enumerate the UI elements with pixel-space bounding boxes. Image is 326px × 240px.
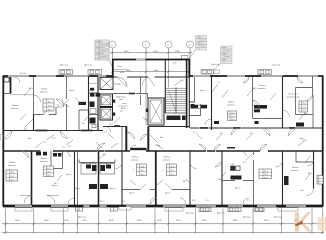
- door arcs corridor: [3, 131, 12, 140]
- svg-text:3,3: 3,3: [206, 200, 209, 202]
- svg-text:40,7: 40,7: [183, 181, 187, 183]
- window bay bottom 1: [15, 208, 32, 211]
- partition x=312.5: [312, 76, 314, 95]
- door thresholds corridor top: [36, 130, 48, 132]
- bathroom top left wing: [88, 93, 98, 115]
- bench below stair: [167, 116, 181, 121]
- svg-text:8,4: 8,4: [82, 123, 85, 125]
- leader lines with tiny labels: [20, 80, 312, 185]
- svg-text:3,3: 3,3: [220, 133, 223, 135]
- svg-text:Жилая: Жилая: [41, 158, 47, 160]
- svg-text:Жилая: Жилая: [12, 105, 18, 107]
- axis bubble 2: [143, 41, 150, 48]
- kitchen partition wall: [66, 76, 68, 131]
- area table bottom 4: [163, 164, 177, 176]
- door arc vestibule right: [142, 77, 154, 86]
- svg-text:4,07: 4,07: [145, 119, 149, 121]
- wall y=93.5 left: [3, 93, 11, 95]
- bottom right bath: [296, 151, 313, 162]
- bathroom fixtures bottom left wing: [36, 151, 63, 169]
- bottom party wall x=190: [189, 151, 191, 205]
- svg-text:Жилая: Жилая: [164, 157, 170, 159]
- svg-text:комната: комната: [40, 161, 48, 163]
- area table apt far right top: [299, 101, 308, 112]
- svg-text:СМ: СМ: [231, 164, 234, 166]
- svg-text:Дет.Сад: Дет.Сад: [60, 65, 68, 67]
- door arc vestibule left: [117, 77, 127, 87]
- bottom dim ticks: [4, 223, 324, 226]
- svg-text:Тамбур: Тамбур: [114, 84, 122, 86]
- svg-text:37,2: 37,2: [192, 200, 196, 202]
- entry door arcs bottom-left apts: [22, 151, 29, 158]
- gray note block 1: [188, 36, 207, 61]
- svg-text:Кухня: Кухня: [69, 90, 74, 92]
- svg-text:МГН: МГН: [121, 108, 126, 110]
- outer wall left: [2, 76, 4, 207]
- room wall y=114.5: [34, 107, 57, 115]
- watermark K: [294, 212, 326, 232]
- svg-text:Дет.Сад: Дет.Сад: [274, 217, 282, 219]
- balcony marker top C: [258, 65, 281, 75]
- bottom dimension extension lines: [6, 209, 323, 234]
- svg-text:комната: комната: [11, 108, 19, 110]
- svg-text:Кухня: Кухня: [75, 188, 80, 190]
- kitchen counter top-left: [79, 102, 87, 105]
- windows bottom wall: [15, 205, 306, 207]
- lobby door arcs: [128, 132, 135, 139]
- wall y=87.5 right end: [296, 88, 314, 129]
- outer wall right: [322, 76, 324, 207]
- kitchen fixtures far right: [296, 123, 304, 127]
- svg-text:17,7: 17,7: [52, 138, 56, 140]
- svg-text:Кухня: Кухня: [165, 193, 170, 195]
- outer wall bottom: [3, 205, 323, 208]
- svg-text:4,07: 4,07: [109, 124, 113, 126]
- balcony marker top B: [84, 65, 102, 75]
- bottom row party wall x=31.5: [31, 151, 33, 205]
- entry door marker core top: [173, 56, 189, 65]
- svg-text:4,4: 4,4: [103, 154, 106, 156]
- vent marker bottom 4: [228, 207, 241, 211]
- svg-text:Гост.: Гост.: [300, 190, 305, 192]
- core left wall: [112, 59, 114, 78]
- svg-text:2ж.Ож: 2ж.Ож: [20, 73, 26, 75]
- partition x=252.5: [252, 76, 254, 118]
- svg-text:Л.1: Л.1: [181, 80, 184, 82]
- window bay bottom 4: [165, 208, 183, 211]
- kitchen counter apt right: [254, 105, 267, 112]
- corridor bottom wall: [3, 150, 323, 152]
- elevator shaft 1a: [100, 94, 113, 107]
- svg-text:комната: комната: [291, 170, 299, 172]
- core top wall: [112, 59, 190, 61]
- svg-text:16,8: 16,8: [218, 179, 222, 181]
- window bay bottom 3: [119, 207, 131, 210]
- kitchen fixtures bottom far right: [284, 176, 289, 185]
- bottom party wall x=122: [121, 151, 123, 205]
- vent marker bottom 5: [254, 207, 264, 211]
- svg-text:Дет.Сад: Дет.Сад: [243, 217, 251, 219]
- room door arcs extra: [34, 95, 41, 102]
- core lobby walls at corridor: [125, 127, 127, 152]
- threshold mat lobby: [130, 148, 147, 150]
- sm ov boxes right wing: [231, 164, 241, 171]
- svg-text:комната: комната: [163, 160, 171, 162]
- kitchen door leaf: [62, 99, 69, 107]
- svg-text:3000: 3000: [126, 70, 130, 72]
- area table apt right-2: [228, 111, 237, 121]
- hall wall x=98: [97, 77, 99, 131]
- svg-text:Кухня: Кухня: [52, 185, 57, 187]
- svg-text:8,4: 8,4: [24, 129, 27, 131]
- svg-text:2,5: 2,5: [193, 132, 196, 134]
- svg-text:17,7: 17,7: [250, 133, 254, 135]
- svg-text:Гостиная с: Гостиная с: [288, 94, 298, 96]
- axis bubble 4: [187, 41, 194, 48]
- vent marker bottom 1: [76, 207, 83, 211]
- window bay bottom 2: [51, 208, 68, 211]
- outer wall top left wing: [3, 75, 113, 77]
- windows top left wing: [8, 75, 106, 77]
- bathroom fixtures left: [90, 102, 97, 128]
- svg-text:1,7: 1,7: [104, 132, 107, 134]
- hall wall apt right3: [253, 118, 283, 120]
- svg-text:4,4: 4,4: [304, 113, 307, 115]
- windows top right wing: [193, 75, 318, 77]
- svg-text:5,1: 5,1: [247, 200, 250, 202]
- svg-text:Жилая: Жилая: [132, 157, 138, 159]
- right wing partition kitchen: [190, 77, 195, 102]
- svg-text:комната: комната: [131, 160, 139, 162]
- svg-text:Жилая: Жилая: [228, 102, 234, 104]
- svg-text:Жилая: Жилая: [41, 89, 47, 91]
- elevator shaft 2: [148, 98, 164, 125]
- svg-text:2,5: 2,5: [68, 146, 71, 148]
- outer wall top right wing: [190, 75, 324, 77]
- svg-text:16,8: 16,8: [308, 173, 312, 175]
- svg-text:1c: 1c: [111, 45, 113, 47]
- axis bubble 1: [109, 41, 116, 48]
- landing walls below stair: [165, 112, 186, 114]
- elevator shaft 1b: [100, 108, 113, 121]
- gray note block 2: [215, 46, 233, 69]
- party wall x=282.5: [282, 76, 284, 128]
- kitchen walls bottom center apts: [122, 189, 156, 191]
- top dimension line: [110, 48, 192, 125]
- exterior sill left wall: [1, 134, 4, 140]
- svg-text:комната: комната: [258, 88, 266, 90]
- balcony marker top D: [201, 64, 220, 74]
- back-to-back kitchen counters center-left: [89, 184, 108, 189]
- wall y77 across core with door gaps: [113, 76, 190, 78]
- svg-text:Кухня: Кухня: [66, 174, 71, 176]
- svg-text:Кухня: Кухня: [200, 90, 205, 92]
- bottom party wall x=74.5: [74, 151, 76, 205]
- party wall x=88.5: [88, 76, 90, 130]
- vent marker bottom 3: [199, 207, 211, 211]
- svg-text:Кухня: Кухня: [235, 188, 240, 190]
- svg-text:Дет.Сад: Дет.Сад: [78, 217, 86, 219]
- balcony marker top A: [59, 65, 73, 75]
- area table bottom far-left: [6, 170, 18, 181]
- door thresholds corridor bottom: [207, 150, 215, 152]
- shaft box with X above elevators: [100, 77, 113, 89]
- bottom party wall x=222: [221, 151, 223, 205]
- svg-text:16,7: 16,7: [54, 183, 58, 185]
- svg-text:Кухня: Кухня: [110, 188, 115, 190]
- svg-text:МГН: МГН: [120, 72, 125, 74]
- door arc room1: [44, 109, 50, 115]
- svg-text:комната: комната: [40, 92, 48, 94]
- party wall x=211.5: [211, 76, 213, 130]
- shaft boxes left wing: [90, 93, 95, 97]
- svg-text:Жилая: Жилая: [259, 85, 265, 87]
- door leaves bottom center: [140, 184, 172, 190]
- legend table top-left: [95, 40, 114, 69]
- svg-text:Кухня: Кухня: [129, 193, 134, 195]
- svg-text:Дет.Сад: Дет.Сад: [273, 65, 281, 67]
- back-to-back wet block center-left: [79, 160, 115, 175]
- svg-text:2,5: 2,5: [62, 147, 65, 149]
- top row partition x=10.5: [10, 77, 12, 94]
- area table bottom right: [259, 169, 272, 179]
- svg-text:30,7: 30,7: [100, 201, 104, 203]
- corridor top wall: [3, 127, 323, 131]
- svg-text:1,7: 1,7: [217, 82, 220, 84]
- svg-text:комната: комната: [227, 105, 235, 107]
- bottom partition x=313.5: [313, 151, 315, 189]
- svg-text:Кор.: Кор.: [160, 137, 164, 139]
- inner dimension line core: [111, 70, 190, 73]
- stairwell: [165, 60, 186, 128]
- hall walls left wing: [79, 110, 89, 131]
- svg-text:16,9: 16,9: [253, 88, 257, 90]
- bathroom right wing 1: [189, 102, 201, 116]
- bottom party wall x=155.5: [155, 151, 157, 205]
- bottom dimension line 2 total: [2, 232, 324, 234]
- svg-text:комната: комната: [8, 165, 16, 167]
- core right wall: [188, 59, 190, 78]
- bottom partition x=253.5: [253, 152, 255, 205]
- svg-text:3,3: 3,3: [122, 201, 125, 203]
- area table apt top-left: [43, 99, 54, 111]
- svg-text:Дет.Сад: Дет.Сад: [217, 213, 225, 215]
- bottom party wall x=282.5: [282, 151, 284, 205]
- area table bottom 2: [44, 166, 54, 177]
- svg-text:16,3: 16,3: [29, 88, 33, 90]
- svg-text:Дет.Сад: Дет.Сад: [84, 65, 92, 67]
- closet top-left corner: [4, 78, 9, 83]
- axis bubble 3: [165, 41, 172, 48]
- kitchen counter right wing 1: [194, 105, 208, 109]
- svg-text:2200: 2200: [154, 70, 158, 72]
- core inner vestibule walls: [113, 77, 148, 105]
- bottom dimension line 1: [2, 223, 324, 225]
- top row partition x=33.5: [33, 76, 35, 115]
- svg-text:12,7: 12,7: [303, 140, 307, 142]
- balcony door swings bottom-left: [20, 196, 32, 204]
- svg-text:4,1: 4,1: [243, 162, 246, 164]
- kitchen counter right wing bottom: [231, 176, 242, 180]
- bottom spine wall x=98.5: [98, 151, 100, 205]
- svg-text:Дет.Сад: Дет.Сад: [212, 64, 220, 66]
- window bay bottom 6: [278, 208, 298, 211]
- svg-text:кухней-нишей: кухней-нишей: [287, 96, 300, 99]
- svg-text:Дет.Сад: Дет.Сад: [186, 213, 194, 215]
- svg-text:Кор.: Кор.: [28, 138, 32, 140]
- balcony door arcs top wall: [243, 77, 249, 83]
- svg-text:Жилая: Жилая: [9, 162, 15, 164]
- svg-text:17,7: 17,7: [42, 142, 46, 144]
- vent marker bottom 2: [110, 207, 117, 211]
- doors bottom wall balcony arcs: [150, 197, 157, 204]
- svg-text:Жилая: Жилая: [292, 167, 298, 169]
- svg-text:безопасности: безопасности: [114, 69, 127, 71]
- area table bottom 3: [133, 164, 147, 176]
